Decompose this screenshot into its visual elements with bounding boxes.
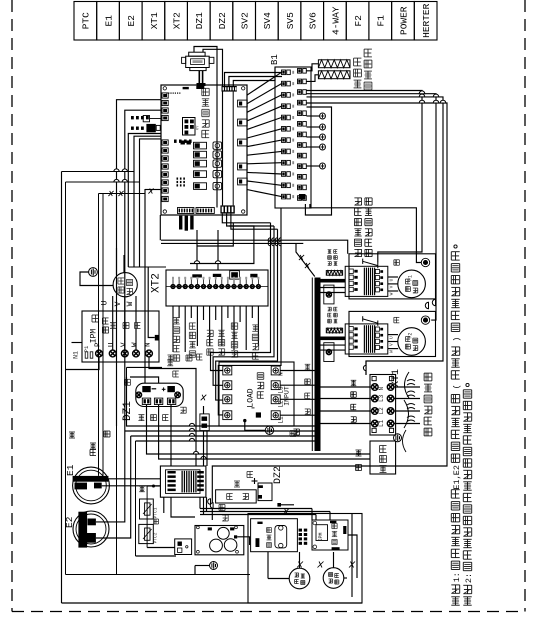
svg-text:1:: 1:: [452, 572, 462, 582]
svg-text:F1: F1: [408, 275, 414, 281]
PCB bottom connector J3: [220, 205, 234, 213]
filter right terminal 2: [271, 381, 280, 390]
legend box SV6: [301, 2, 324, 41]
overload relay F1: [324, 285, 334, 304]
PCB ribbon drops: [179, 216, 182, 230]
label black wire F2: [394, 316, 400, 318]
filter right wire 3: [280, 398, 315, 400]
label 3-phase input: [424, 427, 432, 429]
svg-text:L2: L2: [378, 407, 385, 415]
contactor KM1 outline: [345, 266, 388, 296]
svg-text:): ): [452, 337, 462, 342]
wires bus to contactor F2: [321, 337, 346, 341]
svg-text:F2: F2: [408, 333, 414, 339]
label heater text col2: [364, 81, 372, 83]
connector CN-DZ right: [200, 414, 209, 431]
PCB right edge connectors: [238, 100, 248, 107]
heater R-H1 (compressor heater band): [318, 60, 350, 68]
svg-text:L3: L3: [278, 386, 285, 394]
wires CN-DZ: [203, 406, 205, 414]
hops reactor wires: [193, 451, 198, 454]
bus bar (3-phase): [315, 278, 321, 452]
svg-text:IPM: IPM: [318, 532, 324, 541]
wire fan PCB to B1: [247, 72, 281, 95]
contactor KM2 comb: [364, 325, 365, 353]
wires fans: [299, 552, 301, 568]
XT1 terminal row L1: [372, 420, 379, 427]
svg-text:INPUT: INPUT: [284, 386, 291, 406]
fan connector cluster: [299, 529, 302, 532]
PTC resistor box 1: [140, 499, 154, 519]
page border dashed bottom: [12, 611, 525, 613]
wires UVW motor to IPM: [112, 296, 114, 350]
svg-text:V: V: [389, 343, 395, 346]
PCB transformer pad: [196, 86, 204, 89]
wires into fan boards: [200, 508, 312, 510]
label black wire F1: [394, 259, 400, 261]
wires PCB to XT2: [196, 230, 198, 270]
page border dashed right: [524, 0, 526, 612]
wire inner bottom: [66, 574, 251, 576]
note text mid (heater caution): [354, 248, 361, 250]
XT2 terminal rail: [166, 286, 268, 288]
compressor motor F2 circle: [398, 328, 426, 356]
fan cap box M11: [251, 519, 298, 552]
filter board outline: [219, 362, 294, 426]
DZ1 body: [136, 383, 183, 406]
svg-text:W: W: [389, 292, 395, 295]
wire transformer to PCB right: [194, 47, 217, 208]
wires rectifier down: [163, 497, 165, 513]
wire B1 to heater 2: [307, 75, 319, 82]
wire slash row: [99, 193, 146, 195]
filter ground dot wire: [244, 419, 247, 422]
svg-text:HERTER: HERTER: [421, 3, 432, 38]
XT1 left wire L3: [321, 398, 372, 400]
reactor label: [380, 465, 387, 467]
note line 1 (caution E1 E2 discharge): [451, 596, 459, 598]
legend box E2: [119, 2, 142, 41]
filter right terminal 4: [271, 411, 280, 420]
labels wire colors ipm: [110, 322, 116, 324]
DZ1 top pads: [142, 386, 150, 392]
filter right terminal 1: [271, 366, 280, 375]
svg-text:P1: P1: [83, 345, 90, 352]
label red1: [139, 485, 145, 487]
rectifier connector block: [160, 466, 206, 497]
wire bank right: [237, 537, 249, 545]
sensor terminal T5: [307, 165, 320, 167]
ground symbol G3: [394, 434, 402, 442]
transformer T1 body: [189, 52, 205, 56]
svg-text:2:: 2:: [464, 573, 474, 583]
wires PCB CN20 to B1 top: [225, 73, 283, 87]
legend box HERTER: [414, 2, 437, 41]
IPM fan board: [312, 520, 348, 550]
label bank: [222, 514, 228, 516]
svg-text:L1: L1: [378, 419, 385, 427]
svg-text:N: N: [145, 342, 153, 347]
svg-text:L3: L3: [378, 394, 385, 402]
IPM block outline: [82, 311, 159, 362]
PCB relay K4: [194, 171, 207, 178]
axial fan motor 2: [323, 568, 344, 589]
wire under-PCB to bus top: [296, 243, 315, 276]
svg-text:DZ1: DZ1: [122, 401, 134, 421]
DZ1 wire labels: [138, 414, 144, 416]
XT1 terminal row L2: [372, 408, 379, 415]
wire N down-right: [149, 357, 196, 466]
sensor terminal T3: [307, 136, 320, 138]
PCB vertical trace: [232, 92, 234, 206]
XT1 right wire L3: [394, 398, 420, 400]
upper left parts cluster: [131, 116, 134, 119]
svg-text:W: W: [126, 301, 135, 306]
svg-text:U: U: [389, 278, 395, 281]
svg-text:SV5: SV5: [285, 12, 296, 29]
sensor terminal T4: [307, 146, 320, 148]
connector B1 left plugs: [282, 70, 286, 75]
filter left terminal 4: [223, 411, 232, 420]
DZ1 top feed wires: [144, 189, 146, 383]
svg-text:XT2: XT2: [151, 273, 163, 293]
contactor KM2 outline: [345, 324, 388, 354]
IPM right tab: [155, 335, 159, 341]
legend box SV5: [278, 2, 301, 41]
filter left terminal 2: [223, 381, 232, 390]
XT1 terminal row N: [372, 384, 379, 391]
vertical bundle mid-left: [135, 441, 137, 556]
svg-text:E2: E2: [126, 15, 137, 27]
switch mark near DZ1: [201, 395, 207, 401]
PCB mounting holes: [163, 87, 166, 90]
svg-text:SV6: SV6: [308, 12, 319, 29]
wire top to inverter compressor: [116, 248, 118, 275]
svg-text:RY: RY: [197, 125, 201, 130]
sensor terminal T2: [307, 126, 320, 128]
B1 bottom pad: [299, 194, 306, 200]
svg-text:IPM: IPM: [90, 329, 99, 344]
PCB name text (outdoor main board): [202, 129, 209, 131]
note line 2 (current transformer note): [463, 596, 471, 598]
rectifier comb: [182, 471, 183, 493]
wire B1 to heater 1: [307, 64, 319, 71]
filter right wire 4: [280, 414, 315, 416]
DZ2 component: [258, 483, 272, 501]
wires bus to contactor F1: [321, 279, 346, 283]
wires DZ2 down: [203, 497, 205, 515]
wires PCB left fan: [117, 100, 162, 426]
label near E1 top: [90, 449, 96, 451]
contactor KM1 actuator: [363, 261, 378, 265]
wires contactor to motor F2: [388, 334, 398, 336]
PCB top-left component: [183, 87, 189, 89]
fan switch marks: [297, 562, 303, 568]
fan enclosure: [248, 514, 362, 604]
XT1 left wire N: [321, 386, 372, 388]
contactor KM1 right pins: [375, 269, 379, 273]
wire XT2 area to IPM tab: [148, 267, 155, 338]
wire XT1 to top: [365, 361, 367, 375]
svg-text:(: (: [452, 384, 462, 389]
PCB center relay K0: [183, 118, 196, 136]
B1 tiny pin labels: [292, 71, 294, 74]
ground symbol G4: [210, 562, 218, 570]
ground symbol G2: [265, 426, 273, 434]
svg-text:LOAD: LOAD: [247, 388, 256, 407]
labels tiny F2: [328, 318, 332, 320]
legend box XT2: [165, 2, 188, 41]
PCB top-right connector CN20: [222, 86, 237, 92]
XT2 tiny pin labels: [172, 277, 174, 280]
svg-text:B1: B1: [270, 54, 280, 65]
svg-text:N1: N1: [73, 351, 80, 359]
PCB small caps row: [174, 140, 177, 143]
svg-text:N: N: [278, 372, 285, 376]
svg-text:E2: E2: [452, 465, 462, 475]
compressor F2 terminal dot: [421, 316, 429, 324]
DZ2 right pad: [277, 503, 281, 507]
wires under PCB right: [161, 240, 348, 254]
capacitor bank pads: [208, 527, 212, 530]
XT2 wire color labels: [168, 354, 174, 356]
AC big paren arcs: [405, 372, 410, 398]
AC break mark L3: [407, 391, 415, 393]
filter right terminal 3: [271, 395, 280, 404]
svg-text:V: V: [389, 285, 395, 288]
AC break mark L2: [407, 404, 415, 406]
labels near DZ2: [219, 504, 225, 506]
capacitor bank box: [195, 526, 244, 555]
XT2 drop wires: [172, 306, 174, 352]
svg-text:XT1: XT1: [149, 12, 160, 29]
svg-text:DZ2: DZ2: [217, 12, 228, 29]
legend box PTC: [74, 2, 97, 41]
XT1 right wire L2: [394, 410, 420, 412]
filter left terminal 1: [223, 366, 232, 375]
XT2 jumper bars: [192, 274, 202, 277]
svg-text:L1: L1: [278, 416, 285, 424]
IPM fuse P1: [85, 352, 88, 358]
contactor KM2 right pins: [375, 327, 379, 331]
rectifier right pins: [197, 471, 204, 474]
filter left terminal 3: [223, 395, 232, 404]
legend box 4-WAY: [324, 2, 347, 41]
connector B1 right plugs: [298, 69, 302, 74]
svg-text:PTC1: PTC1: [153, 507, 159, 518]
PCB U0 outline (outdoor main control board): [161, 85, 247, 215]
connector B1 outline: [275, 67, 311, 208]
svg-text:U: U: [389, 336, 395, 339]
wires contactor to motor F1: [388, 276, 398, 278]
bus feed horizontals: [127, 377, 315, 426]
wire into IPM left: [72, 342, 83, 344]
labels tiny F1: [328, 261, 332, 263]
bus wire to right edge D: [212, 103, 447, 520]
PCB relay K1: [194, 142, 207, 149]
DZ1 bottom pads: [142, 398, 150, 404]
wire B1 plug to F1 terminal: [310, 204, 421, 263]
reactor wire labels: [356, 449, 362, 451]
rectifier left pins: [168, 471, 176, 474]
legend box SV2: [233, 2, 256, 41]
axial fan motor 1: [289, 568, 310, 589]
XT1 terminal row L3: [372, 395, 379, 402]
ground symbol G1: [89, 268, 98, 277]
wire bottom frame: [62, 602, 363, 604]
XT2 dest labels: [173, 354, 179, 356]
wire B1 plug to mid loop: [305, 107, 331, 215]
bus wire to right edge B: [307, 94, 437, 320]
wires fan verticals: [351, 514, 353, 598]
wire P down-left: [66, 357, 100, 370]
enclosure compressor F2: [349, 311, 436, 356]
wire 116 continuation: [116, 426, 118, 575]
legend box F2: [346, 2, 369, 41]
label heater text col1: [354, 79, 362, 81]
wires E1 feed verticals: [98, 194, 100, 476]
PTC resistor box 2: [139, 524, 154, 543]
small box bottom-left: [175, 539, 192, 555]
XT2 terminals: [171, 284, 175, 288]
heater small F1: [326, 271, 342, 276]
XT1 outline: [370, 375, 396, 436]
wires E2 right: [96, 431, 125, 522]
capacitor E1: [73, 467, 110, 504]
long duct box: [216, 490, 257, 503]
wire bundle elbow 1: [211, 223, 271, 371]
svg-text:U: U: [101, 300, 110, 305]
wire hop between enclosures: [432, 299, 435, 305]
filter CN5: [256, 412, 261, 417]
DZ1 mount terminals: [136, 392, 142, 398]
legend box SV4: [256, 2, 279, 41]
bus wire to right edge A: [307, 91, 423, 263]
svg-text:PTC2: PTC2: [153, 532, 159, 543]
rectifier hops: [208, 499, 211, 505]
svg-text:PTC: PTC: [81, 12, 92, 29]
contactor KM2 left pins: [349, 327, 353, 331]
svg-text:N: N: [378, 387, 385, 391]
wire bundle elbow 4: [218, 208, 281, 415]
enclosure compressor F1: [349, 254, 436, 299]
svg-text:XT2: XT2: [171, 12, 182, 29]
PCB small parts cluster: [177, 178, 179, 180]
XT1 right wire N: [394, 386, 420, 388]
wire long left 1: [61, 172, 63, 604]
PCB bottom connector J2: [196, 208, 214, 214]
compressor motor F1 circle: [398, 270, 426, 298]
XT1 right wire L1: [394, 423, 420, 425]
legend box F1: [369, 2, 392, 41]
PCB left edge connectors: [162, 93, 168, 98]
capacitor bank circles: [217, 527, 229, 539]
svg-text:E1: E1: [65, 464, 76, 476]
legend box E1: [97, 2, 120, 41]
wires J3 to right: [222, 214, 270, 223]
sensor terminal T1: [307, 115, 320, 117]
filter right wire 2: [280, 384, 315, 386]
heater small F2: [326, 328, 342, 333]
legend box DZ1: [187, 2, 210, 41]
AC break mark L1: [407, 416, 415, 418]
page border dashed left: [11, 0, 13, 612]
label below filter: [290, 430, 296, 432]
contactor KM2 actuator: [363, 319, 378, 323]
svg-text:E1: E1: [103, 15, 114, 27]
transformer T1 legs: [198, 71, 200, 86]
svg-text:4-WAY: 4-WAY: [330, 6, 341, 35]
XT1 left wire L1: [321, 423, 372, 425]
XT2 strip outline: [166, 270, 268, 306]
PCB relay K5: [194, 183, 207, 190]
PCB relay K3: [194, 160, 207, 167]
legend box DZ2: [210, 2, 233, 41]
svg-text:F1: F1: [376, 15, 387, 27]
svg-text:W: W: [389, 350, 395, 353]
svg-text:DZ2: DZ2: [273, 466, 284, 484]
svg-text:L2: L2: [278, 400, 285, 408]
svg-text:V: V: [114, 301, 123, 306]
bus wire to right edge C: [307, 97, 444, 375]
overload relay F2: [324, 343, 334, 362]
PTC chain wire: [147, 485, 160, 487]
IPM terminals PUVWN: [96, 350, 103, 357]
filter right wire 1: [280, 370, 315, 372]
PCB relay K2: [194, 151, 207, 158]
PCB bottom connector J1: [178, 208, 194, 214]
wires E1 to rectifier: [108, 478, 160, 480]
legend box POWER: [392, 2, 415, 41]
reactor box: [370, 441, 396, 474]
wire bundle elbow 3: [216, 229, 278, 400]
inverter compressor motor circle: [113, 273, 137, 297]
DZ1 bottom wires: [147, 405, 371, 455]
svg-text:SV4: SV4: [262, 12, 273, 29]
contactor KM1 comb: [364, 268, 365, 296]
svg-text:DZ1: DZ1: [194, 12, 205, 29]
XT1 left wire L2: [321, 410, 372, 412]
capacitor E2: [73, 511, 109, 547]
svg-text:SV2: SV2: [240, 12, 251, 29]
svg-text:F2: F2: [353, 15, 364, 27]
contactor KM1 left pins: [349, 269, 353, 273]
wire long left 2: [65, 182, 67, 575]
legend box XT1: [142, 2, 165, 41]
wire bundle elbow 2: [213, 226, 274, 385]
svg-text:POWER: POWER: [398, 6, 409, 35]
compressor F1 terminal dot: [421, 258, 429, 266]
heater R-H2 (compressor heater band): [318, 71, 350, 79]
svg-text:E1,: E1,: [452, 474, 462, 489]
AC break mark N: [407, 380, 415, 382]
PCB small parts pair: [181, 141, 185, 145]
bus hop crossings: [419, 91, 425, 94]
